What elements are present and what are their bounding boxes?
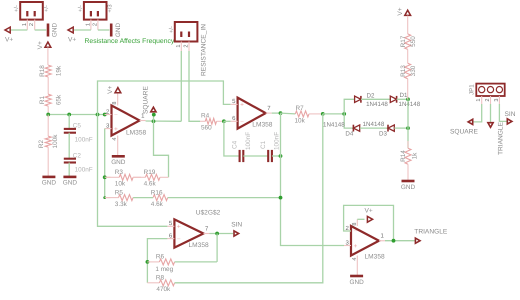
svg-text:1k: 1k	[411, 152, 418, 160]
node A wire	[48, 114, 108, 116]
svg-text:+/-: +/-	[13, 5, 20, 12]
svg-text:SQUARE: SQUARE	[142, 86, 149, 114]
svg-text:R2: R2	[38, 139, 45, 148]
svg-text:1N4148: 1N4148	[323, 122, 345, 129]
wire U2 output to R7	[281, 112, 296, 115]
junction pin3/R3	[103, 175, 107, 179]
wire U4 pin8 to V+	[357, 218, 364, 220]
connector X2 power jack	[84, 2, 107, 20]
svg-text:2: 2	[184, 44, 190, 47]
pin 2 (X3)	[188, 42, 190, 52]
svg-text:V+: V+	[37, 41, 44, 49]
wire R3-R19	[133, 176, 141, 178]
svg-text:100nF: 100nF	[245, 132, 252, 150]
svg-text:R18: R18	[39, 65, 46, 77]
svg-text:R13: R13	[400, 65, 407, 77]
resistor R19 4.6k	[133, 176, 145, 178]
wire R16 to integrator output node	[168, 197, 281, 199]
svg-text:R7: R7	[296, 105, 305, 112]
svg-text:1N4148: 1N4148	[366, 101, 388, 108]
resistor R4 560	[200, 120, 205, 122]
ground GND (X2)	[110, 24, 113, 37]
svg-text:V+: V+	[5, 37, 13, 44]
supply V+ (U1)	[115, 88, 121, 93]
junction node Z	[342, 112, 346, 116]
svg-text:SQUARE: SQUARE	[450, 129, 478, 136]
diode D1 1N4148	[390, 96, 396, 102]
wire D2 to D1	[361, 98, 390, 100]
wire U1 output down to R19/R16	[154, 121, 169, 177]
wire R8 to node after R7	[175, 114, 323, 283]
net label SIN (U3 output)	[234, 231, 239, 236]
svg-text:4: 4	[112, 137, 118, 140]
svg-text:R5: R5	[115, 189, 124, 196]
svg-text:−: −	[177, 236, 181, 243]
wire X3 pin2 down to R4	[189, 51, 200, 121]
capacitor C1 100nF	[267, 150, 269, 162]
svg-text:R8: R8	[156, 274, 165, 281]
connector JP1 output header	[476, 84, 504, 96]
wire pin2 to GND (X1)	[35, 29, 47, 31]
svg-text:4.6k: 4.6k	[151, 201, 164, 208]
junction node A / C5	[67, 113, 71, 117]
svg-text:TRIANGLE: TRIANGLE	[498, 121, 505, 155]
svg-text:R17: R17	[400, 35, 407, 47]
svg-text:+/-: +/-	[43, 5, 50, 12]
wire V+ to R18	[47, 47, 49, 65]
ground GND (R14)	[402, 180, 415, 183]
svg-text:V+: V+	[397, 7, 404, 15]
svg-text:100nF: 100nF	[274, 132, 281, 150]
resistor R14 1k	[405, 148, 411, 164]
wire C4 to C1	[243, 155, 268, 157]
pin 2 (X2)	[97, 20, 99, 30]
wire D4 to D3	[360, 127, 388, 129]
resistor R8 470k	[147, 282, 159, 284]
junction U3 output / R6	[215, 232, 219, 236]
svg-text:SIN: SIN	[231, 221, 242, 228]
svg-text:R14: R14	[400, 150, 407, 162]
junction node A / R2	[46, 113, 50, 117]
svg-text:C5: C5	[73, 123, 82, 130]
junction U2 output	[279, 111, 283, 115]
wire R13 to node W	[407, 79, 409, 100]
svg-text:4.6k: 4.6k	[144, 181, 157, 188]
svg-text:D4: D4	[345, 131, 353, 138]
junction node W	[406, 97, 410, 101]
svg-text:U$2G$2: U$2G$2	[196, 210, 221, 217]
svg-text:−: −	[354, 228, 358, 235]
supply V+ (U4)	[367, 216, 372, 222]
wire node Z down to D4	[344, 114, 353, 128]
pin 3 (JP1)	[498, 96, 500, 104]
wire R1 to node A	[47, 106, 49, 114]
svg-text:JP1: JP1	[468, 84, 475, 95]
svg-text:2: 2	[29, 23, 35, 26]
op-amp U4 LM358	[351, 226, 379, 256]
resistor R5 3.3k	[105, 197, 119, 199]
svg-text:4: 4	[352, 257, 358, 260]
svg-text:470k: 470k	[156, 286, 171, 293]
capacitor C5 100nF	[64, 128, 76, 130]
wire U1 pin3 to feedback divider	[104, 129, 106, 198]
svg-text:SIN: SIN	[505, 111, 516, 118]
svg-text:10k: 10k	[295, 118, 306, 125]
junction pin3/R5 corner	[103, 196, 106, 199]
svg-text:GND: GND	[349, 279, 364, 286]
junction U4 output	[392, 239, 396, 243]
svg-text:GND: GND	[401, 184, 416, 191]
svg-text:TRIANGLE: TRIANGLE	[414, 228, 448, 235]
svg-text:100nF: 100nF	[75, 137, 93, 144]
net label SIN (JP1)	[507, 119, 512, 124]
wire JP1 pin1 to SQUARE	[473, 104, 482, 122]
svg-text:1: 1	[22, 23, 28, 26]
wire JP1 pin2 to TRIANGLE	[490, 104, 492, 123]
wire R14 to GND	[407, 164, 409, 181]
svg-text:C4: C4	[232, 140, 239, 149]
svg-text:V+: V+	[365, 208, 373, 215]
wire X3 pin1 down to square net	[180, 51, 182, 121]
svg-text:3.3k: 3.3k	[115, 201, 128, 208]
junction caps / U2 output	[279, 154, 283, 158]
resistor R6 1meg	[147, 261, 159, 263]
resistor R13 330	[405, 63, 411, 78]
wire R18 to R1	[47, 77, 49, 94]
ground GND (R2)	[42, 176, 55, 179]
pin 1 (JP1)	[481, 96, 483, 104]
connector X3 RESISTANCE_IN	[175, 22, 198, 42]
resistor R2 100k	[47, 115, 49, 137]
junction R7 / R8 branch	[321, 112, 325, 116]
svg-text:+: +	[354, 243, 358, 250]
svg-text:GND: GND	[63, 180, 78, 187]
wire node Z up to D2	[344, 99, 354, 114]
svg-text:560: 560	[201, 125, 212, 132]
diode D3 1N4148	[388, 125, 394, 131]
svg-text:Resistance Affects Frequency: Resistance Affects Frequency	[85, 38, 175, 45]
svg-text:LM358: LM358	[189, 242, 209, 249]
svg-text:GND: GND	[52, 23, 59, 38]
ground GND (U1)	[112, 155, 125, 158]
diode D4 1N4148	[353, 125, 359, 131]
svg-text:+: +	[177, 224, 181, 231]
svg-text:GND: GND	[111, 159, 126, 166]
svg-text:R19: R19	[144, 169, 156, 176]
resistor R18 19k	[45, 65, 51, 77]
svg-text:550: 550	[410, 36, 417, 47]
svg-text:3: 3	[494, 98, 500, 101]
svg-text:−: −	[114, 112, 118, 119]
ground GND (X1)	[47, 24, 50, 37]
wire node A up-over to integrator input	[98, 81, 231, 115]
svg-text:8: 8	[352, 222, 358, 225]
wire node W column	[407, 99, 409, 128]
svg-text:1: 1	[176, 44, 182, 47]
svg-text:V+: V+	[107, 86, 114, 94]
svg-text:330: 330	[410, 65, 417, 76]
wire U2 pin6 down to caps	[224, 121, 239, 156]
ground GND (U4)	[350, 275, 363, 278]
wire node A to C5	[68, 115, 70, 129]
net label SQUARE (U1 output)	[153, 115, 155, 122]
svg-text:1: 1	[85, 23, 91, 26]
op-amp U2 LM358	[238, 98, 266, 129]
ground GND (C2)	[63, 176, 76, 179]
pin 1 (X3)	[180, 42, 182, 52]
svg-text:100nF: 100nF	[75, 166, 93, 173]
capacitor C2 100nF	[64, 158, 76, 160]
wire R7 to node Z	[323, 113, 344, 115]
supply V+ (X1)	[5, 27, 10, 33]
svg-text:1N4148: 1N4148	[363, 121, 385, 128]
svg-text:R3: R3	[115, 169, 124, 176]
wire node A down to sine buffer	[98, 115, 168, 227]
supply V+ (R17)	[405, 10, 411, 15]
svg-text:RESISTANCE_IN: RESISTANCE_IN	[201, 24, 208, 76]
resistor R3 10k	[105, 176, 120, 178]
resistor R16 4.6k	[133, 197, 153, 199]
resistor R1 65k	[45, 94, 51, 106]
svg-text:C1: C1	[260, 140, 267, 149]
pin 2 (X1)	[34, 20, 36, 30]
diode D2 1N4148	[355, 96, 361, 102]
wire pin2 to GND (X2)	[98, 29, 110, 31]
wire C1 to U2 output	[272, 155, 281, 157]
svg-text:LM358: LM358	[365, 254, 385, 261]
wire node W to R14	[407, 128, 409, 148]
svg-text:−: −	[240, 119, 244, 126]
junction R6 left	[146, 260, 150, 264]
net label TRIANGLE (U4 output)	[415, 238, 420, 243]
wire U3 output	[210, 233, 234, 235]
wire V+ to pin1 (X1)	[11, 29, 28, 31]
svg-text:C2: C2	[73, 152, 82, 159]
svg-text:+: +	[114, 126, 118, 133]
svg-text:R16: R16	[151, 189, 163, 196]
svg-text:R1: R1	[39, 95, 46, 104]
svg-text:LM358: LM358	[252, 122, 272, 129]
wire D3 to node W column	[394, 127, 408, 129]
supply V+ (X2)	[68, 27, 73, 33]
wire U2 output	[272, 112, 281, 114]
svg-text:+/-: +/-	[77, 5, 84, 12]
wire R4 to U2 pin6	[224, 120, 231, 122]
svg-text:+/-: +/-	[168, 26, 175, 33]
svg-text:V+: V+	[68, 37, 76, 44]
connector X1 power jack	[20, 2, 43, 20]
junction node W lower	[406, 126, 410, 130]
svg-text:D3: D3	[379, 131, 387, 138]
svg-text:2: 2	[92, 23, 98, 26]
svg-text:1N4148: 1N4148	[399, 101, 421, 108]
svg-text:8: 8	[112, 101, 118, 104]
svg-text:+: +	[240, 102, 244, 109]
wire D1 to node W	[397, 98, 408, 100]
svg-text:65k: 65k	[56, 94, 63, 105]
wire U3 pin6 to R6/R8 node	[147, 239, 167, 283]
svg-text:LM358: LM358	[126, 129, 146, 136]
junction U1 output	[152, 119, 156, 123]
wire C2 to GND	[68, 163, 70, 177]
junction node A / pin2	[103, 113, 107, 117]
svg-text:19k: 19k	[56, 65, 63, 76]
pin 1 (X1)	[26, 20, 28, 30]
wire U2 output down to triangle buffer	[281, 113, 345, 245]
wire V+ to pin1 (X2)	[74, 29, 91, 31]
svg-text:100k: 100k	[52, 134, 59, 149]
wire U1 output	[146, 120, 182, 122]
svg-text:2: 2	[485, 98, 491, 101]
pin 1 (X2)	[90, 20, 92, 30]
svg-text:GND: GND	[115, 23, 122, 38]
svg-text:1 meg: 1 meg	[155, 266, 173, 273]
svg-text:1: 1	[476, 98, 482, 101]
pin 2 (JP1)	[490, 96, 492, 104]
wire U3 output down to R6	[216, 234, 218, 262]
wire JP1 pin3 to SIN	[499, 104, 507, 121]
capacitor C4 100nF	[239, 150, 241, 162]
junction node A / feedback	[96, 113, 100, 117]
op-amp U1 LM358	[112, 106, 140, 136]
net label SQUARE (JP1)	[468, 119, 473, 124]
resistor R17 550	[405, 34, 411, 50]
svg-text:D2: D2	[367, 92, 375, 99]
svg-text:R4: R4	[201, 113, 210, 120]
svg-text:10k: 10k	[115, 181, 126, 188]
wire V+ to R17	[407, 16, 409, 34]
resistor R7 10k	[295, 111, 309, 117]
junction U2 output / R16	[279, 196, 283, 200]
supply V+ (R18)	[45, 42, 51, 47]
wire U4 feedback loop	[344, 205, 394, 240]
wire R17 to R13	[407, 49, 409, 63]
svg-text:+/3: +/3	[107, 4, 114, 12]
svg-text:R6: R6	[156, 254, 165, 261]
wire U4 output	[385, 240, 415, 242]
net label TRIANGLE (JP1)	[488, 123, 493, 128]
wire C5 to C2	[68, 133, 70, 159]
junction R4 / U2 pin6	[222, 119, 226, 123]
svg-text:GND: GND	[42, 180, 57, 187]
